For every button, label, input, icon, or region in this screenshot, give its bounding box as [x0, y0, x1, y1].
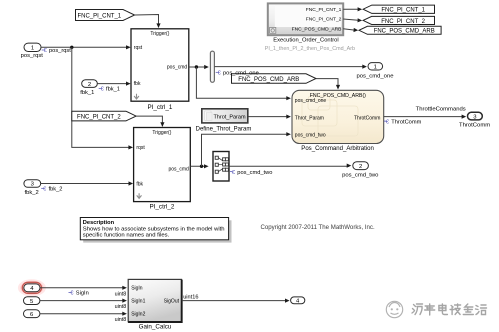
signal conversion block: [213, 152, 229, 182]
svg-text:Execution_Order_Control: Execution_Order_Control: [273, 38, 338, 44]
signal label pos_rqst: [42, 48, 72, 54]
svg-text:pos_cmd_two: pos_cmd_two: [342, 173, 379, 179]
svg-text:2: 2: [88, 82, 91, 88]
wire pos_rqst: [41, 45, 131, 49]
svg-text:uint8: uint8: [115, 304, 127, 310]
svg-text:Trigger(): Trigger(): [152, 130, 171, 136]
svg-text:SigIn2: SigIn2: [131, 312, 145, 318]
svg-text:uint8: uint8: [115, 291, 127, 297]
From tag FNC_POS_CMD_ARB: [232, 74, 317, 84]
annotation PI_1_then_PI_2_then_Pos_Cmd_Arb: [265, 46, 355, 52]
signal label pos_cmd_one: [216, 71, 259, 77]
svg-text:Description: Description: [83, 220, 115, 226]
label uint8 third: [115, 317, 127, 323]
wire Throt_Param: [248, 115, 291, 119]
junction pos_cmd_one: [195, 65, 198, 68]
watermark logo and text: [386, 301, 486, 317]
chart Pos_Command_Arbitration: [292, 90, 384, 143]
label Gain_Calcu: [139, 324, 172, 331]
signal label ThrotComm: [384, 119, 422, 125]
svg-text:pos_cmd_one: pos_cmd_one: [295, 98, 327, 104]
svg-text:FNC_PI_CNT_1: FNC_PI_CNT_1: [381, 8, 425, 14]
svg-text:pos_cmd_two: pos_cmd_two: [295, 133, 326, 139]
Goto tag FNC_POS_CMD_ARB: [359, 26, 441, 34]
outport 1 pos_cmd_one: [356, 63, 394, 80]
svg-text:pos_rqst: pos_rqst: [21, 53, 44, 59]
label ThrottleCommands: [416, 107, 466, 113]
wire pos_cmd_two branch to Pos_Command_Arbitration: [202, 132, 291, 166]
wire pos_rqst branch to PI_ctrl_2: [72, 47, 133, 149]
wire FNC_POS_CMD_ARB to arbitration trigger: [316, 79, 340, 90]
wire SigIn: [40, 286, 127, 290]
inport 3 fbk_2: [24, 180, 41, 196]
svg-text:FNC_POS_CMD_ARB: FNC_POS_CMD_ARB: [374, 29, 435, 35]
wire SigIn2: [40, 312, 127, 316]
svg-text:uint16: uint16: [183, 294, 198, 300]
inport 1 pos_rqst: [21, 43, 44, 59]
svg-text:Define_Throt_Param: Define_Throt_Param: [196, 126, 252, 132]
svg-text:ThrotComm: ThrotComm: [391, 119, 421, 125]
svg-text:ThrotComm: ThrotComm: [354, 115, 380, 121]
signal label fbk_1: [99, 87, 120, 93]
svg-text:pos_cmd_one: pos_cmd_one: [356, 74, 394, 80]
svg-text:Throt_Param: Throt_Param: [213, 114, 246, 120]
signal label pos_cmd_two: [230, 170, 272, 176]
label PI_ctrl_1: [147, 104, 172, 111]
svg-text:PI_ctrl_2: PI_ctrl_2: [149, 203, 174, 210]
svg-text:1: 1: [31, 46, 34, 52]
svg-text:FNC_POS_CMD_ARB: FNC_POS_CMD_ARB: [238, 77, 299, 83]
subsystem PI_ctrl_2: [134, 128, 191, 202]
description box: [80, 218, 228, 240]
svg-text:€: €: [232, 170, 236, 176]
wire pos_cmd from PI_ctrl_2: [190, 164, 208, 168]
wire to Goto FNC_POS_CMD_ARB: [343, 28, 358, 32]
wire pos_cmd from PI_ctrl_1: [189, 65, 209, 69]
svg-text:FNC_PI_CNT_1: FNC_PI_CNT_1: [77, 13, 121, 19]
svg-text:€: €: [101, 87, 105, 93]
svg-text:2: 2: [359, 164, 362, 170]
svg-text:pos_cmd: pos_cmd: [169, 166, 190, 172]
From tag FNC_PI_CNT_2: [72, 111, 136, 121]
svg-text:€: €: [218, 71, 222, 77]
subsystem PI_ctrl_1: [131, 29, 189, 101]
svg-text:ThrotComm: ThrotComm: [459, 123, 490, 129]
wire SigIn1: [40, 299, 127, 303]
svg-text:Pos_Command_Arbitration: Pos_Command_Arbitration: [301, 146, 374, 152]
inport 4 SigIn: [24, 284, 40, 292]
svg-text:SigOut: SigOut: [164, 298, 180, 304]
wire ThrotComm out: [384, 115, 467, 119]
svg-text:€: €: [43, 187, 47, 193]
svg-text:Throt_Param: Throt_Param: [295, 115, 324, 121]
wire FNC_PI_CNT_1 to PI_ctrl_1 trigger: [135, 15, 161, 29]
wire FNC_PI_CNT_2 to PI_ctrl_2 trigger: [136, 116, 164, 127]
block Define_Throt_Param: [202, 109, 248, 123]
label PI_ctrl_2: [149, 203, 174, 210]
svg-text:rqst: rqst: [134, 45, 143, 51]
svg-text:uint8: uint8: [115, 317, 127, 323]
wire fbk_1: [97, 82, 130, 86]
svg-text:specific function names and fi: specific function names and files.: [83, 232, 170, 238]
svg-text:SigIn: SigIn: [131, 286, 143, 292]
wire fbk_2: [41, 181, 133, 185]
outport 4: [291, 297, 305, 305]
svg-text:pos_cmd_one: pos_cmd_one: [223, 71, 259, 77]
svg-text:€: €: [44, 48, 48, 54]
svg-text:PI_1_then_PI_2_then_Pos_Cmd_Ar: PI_1_then_PI_2_then_Pos_Cmd_Arb: [265, 46, 355, 52]
inport 5: [24, 297, 40, 305]
svg-text:FNC_PI_CNT_2: FNC_PI_CNT_2: [381, 19, 425, 25]
svg-text:Gain_Calcu: Gain_Calcu: [139, 324, 172, 331]
chart Execution_Order_Control: [268, 3, 343, 35]
svg-text:fbk_1: fbk_1: [80, 90, 94, 96]
svg-text:pos_cmd: pos_cmd: [167, 65, 188, 71]
signal label SigIn: [69, 291, 89, 297]
copyright: [261, 224, 375, 231]
Goto tag FNC_PI_CNT_1: [363, 5, 434, 14]
wire conversion to outport pos_cmd_two: [229, 164, 351, 168]
svg-text:PI_ctrl_1: PI_ctrl_1: [147, 104, 172, 111]
wire pos_cmd_one branch to Pos_Command_Arbitration: [196, 67, 291, 100]
svg-text:FNC_PI_CNT_2: FNC_PI_CNT_2: [77, 114, 121, 120]
svg-text:1: 1: [374, 65, 377, 71]
svg-text:fbk: fbk: [136, 182, 143, 188]
inport 6: [24, 310, 40, 318]
svg-text:rqst: rqst: [136, 145, 145, 151]
signal conversion bar: [210, 51, 214, 82]
svg-text:FNC_POS_CMD_ARB: FNC_POS_CMD_ARB: [292, 27, 342, 33]
label Define_Throt_Param: [196, 126, 252, 132]
wire bar to outport pos_cmd_one: [214, 65, 367, 69]
svg-text:SigIn: SigIn: [76, 291, 89, 297]
svg-text:FNC_PI_CNT_2: FNC_PI_CNT_2: [306, 17, 342, 23]
svg-text:pos_cmd_two: pos_cmd_two: [237, 170, 272, 176]
svg-text:€: €: [386, 119, 390, 125]
svg-text:fbk_2: fbk_2: [25, 190, 39, 196]
label Pos_Command_Arbitration: [301, 146, 374, 152]
svg-text:fbk_2: fbk_2: [49, 187, 63, 193]
inport 4 highlight: [18, 279, 46, 296]
Goto tag FNC_PI_CNT_2: [363, 16, 434, 24]
svg-text:SigIn1: SigIn1: [131, 298, 145, 304]
svg-text:Trigger(): Trigger(): [150, 31, 169, 37]
svg-text:ThrottleCommands: ThrottleCommands: [416, 107, 466, 113]
signal label fbk_2: [41, 187, 62, 193]
wire to Goto FNC_PI_CNT_2: [343, 18, 362, 22]
svg-text:fbk: fbk: [134, 81, 141, 87]
svg-text:FNC_PI_CNT_1: FNC_PI_CNT_1: [306, 7, 342, 13]
inport 2 fbk_1: [80, 80, 97, 96]
wire SigOut: [182, 299, 290, 303]
label uint8 first: [115, 291, 127, 297]
wire to Goto FNC_PI_CNT_1: [343, 7, 362, 11]
label uint8 second: [115, 304, 127, 310]
label uint16: [183, 294, 198, 300]
junction pos_cmd_two: [200, 165, 203, 168]
outport 2 pos_cmd_two: [342, 162, 379, 179]
label Execution_Order_Control: [273, 38, 338, 44]
svg-text:Copyright 2007-2011 The MathWo: Copyright 2007-2011 The MathWorks, Inc.: [261, 224, 375, 231]
svg-text:fbk_1: fbk_1: [106, 87, 120, 93]
svg-text:€: €: [70, 291, 74, 297]
description box shadow: [83, 220, 231, 242]
subsystem Gain_Calcu: [128, 279, 182, 322]
svg-text:pos_rqst: pos_rqst: [49, 48, 71, 54]
junction pos_rqst: [70, 46, 73, 49]
From tag FNC_PI_CNT_1: [76, 10, 135, 21]
outport 3 ThrotComm: [459, 112, 490, 128]
